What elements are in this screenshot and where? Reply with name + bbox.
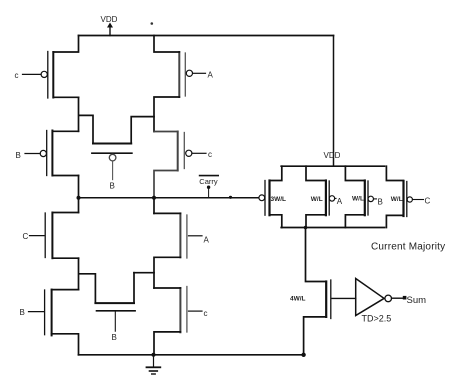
svg-text:B: B — [112, 333, 117, 342]
transistor MS 4W/L (sum stage) — [290, 280, 331, 319]
svg-text:B: B — [16, 151, 21, 160]
node carry-bar column — [78, 176, 80, 213]
junction dot Sum — [403, 296, 407, 300]
wire majority out down — [306, 228, 327, 282]
svg-text:Current Majority: Current Majority — [371, 242, 445, 253]
wire P3 source up — [52, 130, 78, 132]
wire M2 drain to bottom rail — [306, 215, 326, 228]
wire PB1 right terminal — [131, 117, 154, 144]
wire M4 drain to bottom rail — [386, 215, 403, 227]
wire VDD right drop to majority block — [333, 36, 335, 167]
svg-text:W/L: W/L — [311, 196, 323, 203]
wire P1 source to rail — [53, 36, 78, 53]
transistor M4 W/L (gate C) — [391, 181, 431, 217]
svg-text:B: B — [110, 182, 115, 191]
junction dot carry left — [77, 196, 81, 200]
svg-text:VDD: VDD — [324, 151, 341, 160]
svg-text:W/L: W/L — [352, 195, 364, 202]
svg-text:TD>2.5: TD>2.5 — [362, 314, 392, 324]
svg-text:A: A — [204, 235, 210, 244]
transistor PB1 gate B (PMOS middle horizontal) — [92, 144, 132, 191]
svg-text:C: C — [23, 232, 29, 241]
junction dot carry mid — [152, 196, 156, 200]
node column left lower — [79, 258, 96, 303]
transistor P4 gate c (PMOS mid-right) — [178, 132, 212, 171]
wire M2 source to top rail — [306, 166, 326, 180]
svg-text:4W/L: 4W/L — [290, 296, 306, 303]
transistor N2 gate A (NMOS) — [180, 213, 209, 258]
wire N2 source down — [154, 257, 180, 272]
transistor NB gate B (NMOS middle horizontal) — [95, 303, 135, 342]
transistor N4 gate c (NMOS bottom-right) — [180, 287, 207, 333]
wire M4 source to top rail — [386, 166, 403, 180]
wire M1 source to top rail — [270, 166, 282, 180]
wire NB right terminal up — [133, 273, 135, 303]
wire MS source to ground rail — [304, 317, 327, 355]
ground symbol — [147, 355, 161, 374]
label Carry-bar — [199, 176, 218, 198]
svg-text:A: A — [337, 197, 343, 206]
junction dot ground mid — [152, 353, 156, 357]
transistor N3 gate B (NMOS bottom-left) — [20, 290, 52, 336]
svg-text:B: B — [378, 197, 383, 206]
wire VDD top rail — [79, 35, 334, 37]
VDD supply arrow — [101, 15, 118, 36]
svg-text:B: B — [20, 308, 25, 317]
svg-text:A: A — [208, 71, 214, 80]
svg-text:c: c — [204, 309, 208, 318]
wire carry-bar horizontal — [79, 197, 259, 199]
transistor P3 gate B (PMOS mid-left) — [16, 131, 53, 176]
inverter U1 TD>2.5 — [356, 279, 392, 324]
wire P2 drain down — [154, 97, 179, 132]
junction dot ground right — [301, 353, 305, 357]
wire N3 drain up — [52, 289, 79, 291]
svg-text:c: c — [15, 71, 19, 80]
wire P4 source — [154, 131, 178, 133]
wire P2 source to rail — [154, 36, 179, 53]
svg-text:VDD: VDD — [101, 15, 118, 24]
svg-text:c: c — [208, 150, 212, 159]
svg-text:3W/L: 3W/L — [271, 196, 287, 203]
svg-text:Sum: Sum — [407, 295, 427, 306]
transistor M2 W/L (gate A) — [311, 181, 343, 216]
stray dot — [151, 22, 154, 25]
wire inverter output to Sum — [392, 297, 403, 299]
wire N1 drain up — [52, 212, 78, 214]
wire P4 drain to carry node — [154, 171, 178, 198]
wire M3 source to top rail — [345, 166, 364, 180]
wire N4 drain up — [154, 287, 180, 289]
wire MS gate to inverter — [332, 297, 356, 299]
svg-text:C: C — [425, 197, 431, 206]
svg-text:Carry: Carry — [199, 177, 218, 186]
node column left upper — [79, 97, 94, 143]
wire N2 drain up — [154, 212, 180, 214]
wire N2 top drop — [153, 198, 155, 214]
transistor P2 gate A (PMOS top-right) — [179, 52, 213, 97]
node right lower — [134, 273, 154, 288]
wire N3 source to ground rail — [52, 334, 79, 355]
transistor M3 W/L (gate B) — [352, 181, 383, 216]
transistor N1 gate C (NMOS) — [23, 213, 53, 259]
svg-text:W/L: W/L — [391, 196, 403, 203]
wire N1 source down — [52, 257, 78, 259]
wire P3 drain down — [52, 175, 78, 177]
junction dot majority out — [304, 226, 308, 230]
wire M3 drain to bottom rail — [345, 215, 364, 228]
majority block bottom rail — [281, 227, 384, 229]
majority block top rail — [281, 165, 384, 167]
transistor M1 3W/L (gate carry-bar) — [259, 181, 286, 216]
wire P1 drain down — [53, 96, 78, 98]
ground rail — [79, 354, 304, 356]
wire M1 drain to bottom rail — [270, 215, 282, 228]
transistor P1 gate C (PMOS top-left) — [15, 52, 54, 99]
junction dot carry small — [229, 196, 232, 199]
wire N4 source to ground rail — [154, 332, 180, 355]
